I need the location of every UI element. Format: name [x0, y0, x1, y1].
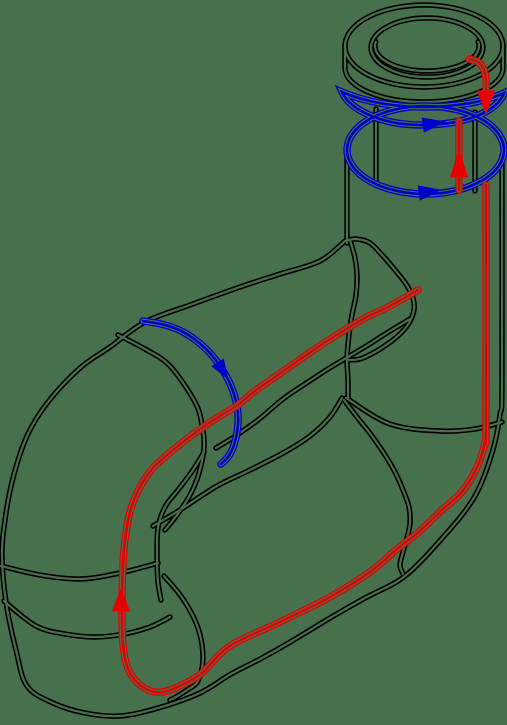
- cylinder left edge: [344, 150, 349, 243]
- neck right edge: [472, 112, 477, 191]
- blue meridian arc on sloped pipe: [143, 321, 238, 464]
- red arrow up on neck: [451, 151, 468, 177]
- blue arrow on ring 2: [418, 186, 440, 200]
- flange lower rim: [345, 44, 503, 102]
- bottom pipe top edge: [153, 398, 342, 526]
- double-line cores (black): [345, 5, 503, 87]
- sloped pipe end cap outer arc: [345, 239, 414, 360]
- hole left inner fold: [157, 452, 204, 600]
- blue arrow on ring 1: [422, 118, 444, 132]
- blue arrow on sloped meridian: [212, 359, 228, 379]
- red longitude over rim: [469, 59, 486, 98]
- double-line cores (blue): [342, 92, 504, 125]
- bend fold lower: [4, 601, 170, 637]
- red longitude loop main: [122, 185, 486, 692]
- mouth inner wall arc: [375, 42, 479, 71]
- bend fold upper: [1, 563, 158, 579]
- flange outer rim ellipse: [345, 5, 503, 87]
- blue meridian ring 2: [347, 106, 504, 194]
- double-line cores (red): [122, 185, 486, 692]
- pipe outer silhouette: [2, 155, 502, 716]
- red arrow down into loop: [478, 91, 495, 113]
- bottom junction seam oval: [164, 576, 203, 700]
- elbow seam and hole left edge: [118, 335, 204, 530]
- mouth outer ellipse: [371, 18, 483, 77]
- cylinder left edge lower: [347, 240, 357, 398]
- neck left edge: [373, 109, 378, 184]
- blue meridian ring 1: [342, 92, 504, 125]
- red arrow up on left side: [113, 590, 130, 611]
- sloped pipe bottom edge: [216, 319, 410, 448]
- hole right edge: [344, 400, 410, 574]
- red longitude neck segment: [455, 121, 462, 190]
- seam cylinder-to-bend: [346, 398, 502, 431]
